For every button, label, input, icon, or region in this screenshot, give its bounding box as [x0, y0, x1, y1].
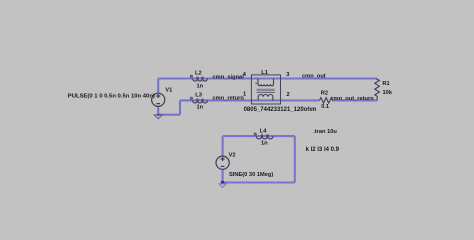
value 1n (L3) [197, 105, 204, 111]
svg-text:cmn_return: cmn_return [213, 95, 245, 101]
transformer primary winding [258, 79, 274, 86]
transformer U-core box L1 [251, 75, 280, 104]
label L2 [195, 71, 202, 77]
wire cmn_return rail to R2 [180, 99, 320, 101]
transformer core [257, 89, 275, 92]
net label cmn_signal [213, 74, 245, 80]
pin number 1 [243, 91, 246, 97]
label R1 [382, 81, 389, 87]
phase dot L3 [190, 97, 192, 99]
directive k l2 l3 l4 0.9 [306, 147, 340, 153]
wire V2 loop top rail [223, 135, 295, 137]
net label cmn_return [213, 95, 245, 101]
svg-text:SINE(0 30 1Meg): SINE(0 30 1Meg) [229, 172, 273, 178]
svg-text:0.1: 0.1 [321, 104, 329, 110]
pin number 4 [243, 72, 247, 78]
label V1 [165, 87, 172, 93]
phase tick L1 [255, 82, 257, 84]
directive .tran 10u [313, 129, 337, 135]
label R2 [321, 91, 328, 97]
transformer secondary winding [258, 95, 273, 101]
svg-text:L4: L4 [260, 128, 267, 134]
svg-text:1n: 1n [197, 105, 204, 111]
pin number 2 [287, 92, 290, 98]
value SINE(0 30 1Meg) [229, 172, 273, 178]
net label cmn_out_return [330, 96, 374, 102]
wire V2 top vertical [222, 136, 224, 156]
voltage source V2 [216, 156, 229, 169]
phase dot L2 [190, 75, 192, 77]
wire V2 bottom vertical [222, 169, 224, 182]
svg-text:1n: 1n [261, 141, 268, 147]
wire riser up to cmn_return rail [179, 100, 181, 114]
ground (V2) [219, 184, 226, 187]
svg-text:cmn_out_return: cmn_out_return [330, 96, 374, 102]
svg-text:k l2 l3 l4 0.9: k l2 l3 l4 0.9 [306, 147, 340, 153]
svg-text:2: 2 [287, 92, 290, 98]
voltage source V1 [152, 93, 165, 106]
value PULSE(0 1 0 0.5n 0.5n 10n 40n) [68, 94, 155, 100]
wire V2 loop right side [294, 136, 296, 182]
label L3 [195, 93, 202, 99]
inductor L3 [193, 99, 208, 103]
wire R2 to R1 bottom [332, 99, 377, 101]
svg-text:cmn_out: cmn_out [302, 74, 326, 80]
value 1n (L2) [197, 83, 204, 89]
wire V1 top vertical [157, 79, 159, 94]
svg-text:R2: R2 [321, 91, 328, 97]
phase dot L4 [254, 133, 256, 135]
svg-text:PULSE(0 1 0 0.5n 0.5n 10n 40n): PULSE(0 1 0 0.5n 0.5n 10n 40n) [68, 94, 155, 100]
inductor L2 [193, 77, 208, 81]
svg-text:.tran 10u: .tran 10u [313, 129, 337, 135]
svg-text:10k: 10k [383, 90, 393, 96]
value 1n (L4) [261, 141, 268, 147]
svg-text:L3: L3 [195, 93, 202, 99]
svg-text:3: 3 [286, 72, 289, 78]
svg-text:L1: L1 [261, 70, 268, 76]
resistor R2 [320, 98, 333, 103]
svg-text:cmn_signal: cmn_signal [213, 74, 245, 80]
ground (V1) [154, 115, 162, 119]
junction at V2 ground node [221, 181, 225, 185]
wire ground node to riser [158, 114, 180, 116]
inductor L4 [256, 135, 273, 139]
svg-text:1n: 1n [197, 83, 204, 89]
label V2 [229, 153, 236, 159]
svg-text:V2: V2 [229, 153, 236, 159]
svg-text:1: 1 [243, 91, 246, 97]
svg-text:R1: R1 [382, 81, 389, 87]
svg-text:0805_744233121_120ohm: 0805_744233121_120ohm [244, 107, 317, 113]
pin number 3 [286, 72, 289, 78]
wire V1 bottom to ground node [157, 106, 159, 115]
svg-text:V1: V1 [165, 87, 172, 93]
label L4 [260, 128, 267, 134]
value 0.1 (R2) [321, 104, 329, 110]
value 10k (R1) [383, 90, 393, 96]
label L1 [261, 70, 268, 76]
net label cmn_out [302, 74, 326, 80]
resistor R1 [375, 79, 380, 101]
wire top rail cmn_signal from V1 to R1 [158, 77, 377, 79]
wire V2 loop bottom rail [223, 181, 295, 183]
value 0805_744233121_120ohm [244, 107, 317, 113]
junction at V1 ground node [157, 114, 159, 116]
svg-text:L2: L2 [195, 71, 202, 77]
